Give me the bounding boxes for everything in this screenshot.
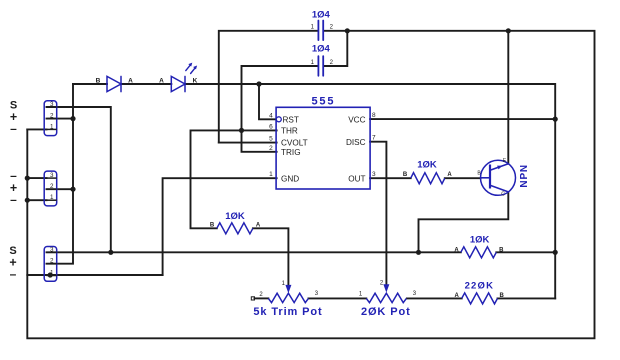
svg-text:6: 6	[269, 123, 273, 130]
junction (259,84)	[256, 81, 261, 86]
svg-text:4: 4	[269, 112, 273, 119]
svg-text:1ØK: 1ØK	[225, 211, 245, 222]
svg-text:3: 3	[50, 172, 54, 179]
svg-text:7: 7	[372, 135, 376, 142]
junction (27.3,200.2)	[25, 198, 30, 203]
VR1 pin2 no-connect square	[251, 297, 254, 300]
wire THR net	[191, 130, 277, 228]
junction (241.5,130.4)	[239, 128, 244, 133]
junction (418.5,252.3)	[416, 250, 421, 255]
op-amp U1 555 timer body	[276, 107, 370, 189]
svg-text:2: 2	[50, 258, 54, 265]
wire diode to LED	[121, 83, 171, 85]
svg-text:–: –	[10, 122, 17, 136]
junction (73,118.6)	[70, 116, 75, 121]
svg-text:TRIG: TRIG	[281, 148, 301, 157]
svg-text:1: 1	[269, 171, 273, 178]
svg-text:RST: RST	[283, 115, 299, 124]
VR2 wiper arrow	[383, 284, 389, 292]
svg-text:B: B	[210, 223, 215, 229]
svg-text:VCC: VCC	[348, 115, 365, 124]
svg-text:1Ø4: 1Ø4	[312, 44, 331, 55]
resistor R1 10K (base)	[411, 173, 445, 184]
svg-text:CVOLT: CVOLT	[281, 139, 308, 148]
svg-text:B: B	[499, 247, 504, 253]
svg-text:GND: GND	[281, 174, 299, 183]
svg-text:A: A	[454, 247, 459, 253]
capacitor C2 104	[318, 56, 323, 76]
junction (555.2,119.1)	[553, 117, 558, 122]
svg-text:1Ø4: 1Ø4	[312, 10, 331, 21]
svg-text:B: B	[403, 172, 408, 178]
svg-text:1: 1	[50, 194, 54, 201]
wire connector J1 pin1 to left rail	[27, 128, 46, 130]
wire ground loop (top rail, right rail, bottom rail, left rail)	[27, 31, 594, 339]
svg-text:8: 8	[372, 112, 376, 119]
junction (27.3,178.1)	[25, 176, 30, 181]
svg-text:DISC: DISC	[346, 138, 366, 147]
LED emission arrowheads	[188, 63, 192, 67]
svg-text:555: 555	[312, 96, 336, 108]
wire GND pin riser	[163, 178, 277, 275]
svg-text:A: A	[447, 172, 452, 178]
wire OUT pin	[370, 177, 411, 179]
svg-text:2: 2	[50, 113, 54, 120]
svg-text:A: A	[128, 78, 133, 85]
potentiometer VR1 5k trim pot	[268, 293, 308, 302]
VR1 wiper arrow	[285, 285, 291, 293]
wire J2 pin2	[47, 188, 74, 190]
junction (555.2,252.3)	[553, 250, 558, 255]
svg-text:5: 5	[269, 136, 273, 143]
wire 20K pot pin3 to 220K	[407, 297, 462, 299]
junction (50.2,275)	[48, 272, 53, 277]
wire connector J2 pin1 to left rail	[27, 199, 46, 201]
connector J2	[44, 171, 57, 206]
svg-text:OUT: OUT	[348, 174, 365, 183]
wire R2 to trim pot wiper	[253, 228, 289, 285]
wire diode anode left	[73, 83, 107, 85]
wire J1 pin2	[47, 118, 74, 120]
connector J3	[44, 247, 57, 282]
svg-text:A: A	[159, 78, 164, 85]
wire LED K to VCC rail vertical	[185, 84, 555, 298]
junction (110.8,252.3)	[108, 250, 113, 255]
svg-text:22ØK: 22ØK	[465, 281, 495, 292]
svg-text:NPN: NPN	[519, 164, 530, 188]
wire J1 pin3 to S net	[47, 107, 111, 252]
junction (347.3,30.8)	[345, 28, 350, 33]
svg-text:–: –	[10, 192, 17, 206]
wire DISC to 20K pot wiper	[370, 142, 386, 285]
Q1 emitter arrowhead	[497, 166, 502, 170]
svg-text:1: 1	[50, 123, 54, 130]
svg-text:1ØK: 1ØK	[417, 159, 437, 170]
svg-text:2: 2	[269, 145, 273, 152]
svg-text:B: B	[96, 78, 101, 85]
svg-text:THR: THR	[281, 127, 298, 136]
svg-text:2ØK Pot: 2ØK Pot	[361, 306, 411, 318]
wire transistor top to top rail	[507, 31, 509, 164]
resistor R2 10K (THR)	[217, 223, 253, 234]
svg-text:1: 1	[50, 270, 54, 277]
diode D1	[107, 76, 121, 91]
svg-text:A: A	[455, 293, 460, 299]
svg-text:–: –	[10, 267, 17, 281]
resistor R3 10K (bottom right)	[461, 247, 497, 258]
wire RST drop	[259, 84, 276, 119]
junction (508.3,30.8)	[506, 28, 511, 33]
wire connector J2 pin3 to left rail	[27, 177, 46, 179]
connector J1	[44, 101, 57, 136]
wire ground bottom horizontal	[27, 274, 162, 276]
svg-text:3: 3	[372, 171, 376, 178]
capacitor C1 104	[318, 21, 323, 41]
U1 RST inversion bubble	[276, 117, 281, 122]
wire 220K to VCC rail	[498, 297, 556, 299]
potentiometer VR2 20K pot	[366, 293, 406, 302]
wire transistor bottom to S net	[419, 192, 509, 252]
LED D2	[171, 76, 185, 91]
junction (73,189.2)	[70, 187, 75, 192]
svg-text:3: 3	[50, 246, 54, 253]
wire VCC pin	[370, 118, 555, 120]
wire diode B net vertical	[47, 84, 74, 264]
svg-text:2: 2	[50, 183, 54, 190]
wire trim pot pin2 stub	[255, 297, 269, 299]
wire CVOLT stub	[219, 142, 277, 144]
svg-text:B: B	[500, 293, 505, 299]
resistor R4 220K	[462, 293, 498, 304]
svg-text:K: K	[193, 78, 198, 85]
svg-text:5k Trim Pot: 5k Trim Pot	[253, 306, 322, 318]
wire S net long horizontal	[47, 251, 461, 253]
wire R3 right to VCC rail	[496, 251, 555, 253]
wire trim pot pin3 to 20K pot pin1	[308, 297, 366, 299]
wire cap C2 left / TRIG net	[242, 31, 348, 152]
wire R1 to transistor base	[445, 177, 481, 179]
svg-text:A: A	[256, 223, 261, 229]
svg-text:C: C	[501, 192, 505, 198]
transistor Q1 NPN	[481, 160, 516, 195]
svg-text:3: 3	[50, 101, 54, 108]
svg-text:1ØK: 1ØK	[470, 234, 490, 245]
